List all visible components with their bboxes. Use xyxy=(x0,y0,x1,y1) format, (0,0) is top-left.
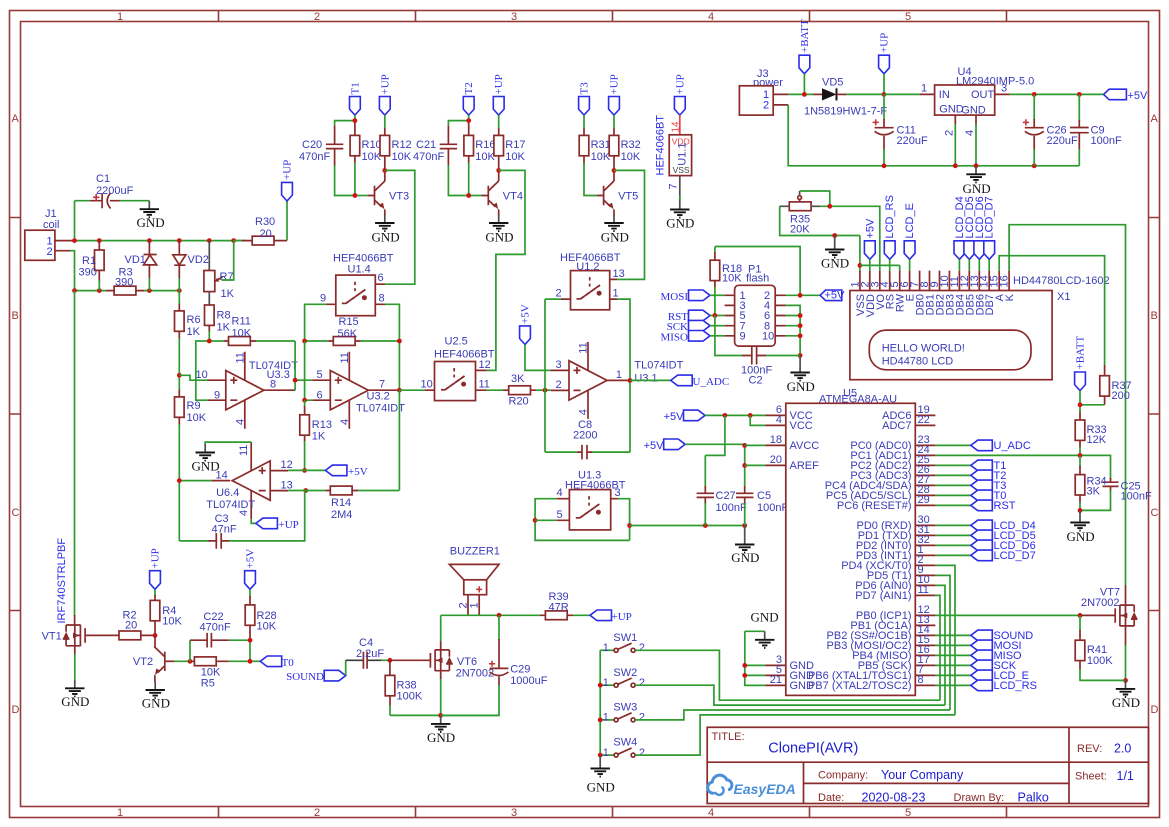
svg-text:1: 1 xyxy=(603,747,609,759)
wire R35 wiper to VO xyxy=(800,191,880,271)
svg-text:ADC7: ADC7 xyxy=(882,420,911,432)
capacitor C11 220uF xyxy=(873,94,928,168)
svg-text:5: 5 xyxy=(905,11,911,23)
svg-text:+5V: +5V xyxy=(245,549,257,569)
net port MOSI at PB3 xyxy=(935,640,1021,652)
svg-text:VT4: VT4 xyxy=(503,191,523,203)
resistor R28 10K xyxy=(245,596,277,640)
transistor VT2 xyxy=(133,635,175,675)
trimmer R35 20K xyxy=(780,191,820,236)
svg-text:20: 20 xyxy=(770,454,782,466)
net port T1 at PC2 xyxy=(935,460,1006,472)
capacitor C26 220uF xyxy=(1023,94,1078,165)
wire VT6 source to ground xyxy=(440,671,442,716)
svg-text:D: D xyxy=(1151,704,1159,716)
svg-text:100nF: 100nF xyxy=(716,502,747,514)
wire bus1 xyxy=(75,240,247,242)
svg-text:10K: 10K xyxy=(591,151,611,163)
op-amp U3.3 TL074IDT xyxy=(196,352,299,429)
node U3.2 inverting input xyxy=(302,341,312,403)
wire SW4 to PD4 xyxy=(635,715,955,755)
svg-text:GND: GND xyxy=(61,694,89,709)
resistor R39 47R xyxy=(540,591,590,620)
svg-text:2: 2 xyxy=(47,246,53,258)
svg-text:20K: 20K xyxy=(790,224,810,236)
svg-text:U1.4: U1.4 xyxy=(348,263,371,275)
resistor R31 10K xyxy=(579,128,611,196)
svg-text:VT6: VT6 xyxy=(457,656,477,668)
wire VT5 collector to U1.2 pin13 xyxy=(614,170,645,279)
svg-text:14: 14 xyxy=(670,121,681,133)
resistor R37 200 xyxy=(1080,365,1132,405)
wire U4 gnd pins xyxy=(955,124,976,166)
svg-text:LCD_E: LCD_E xyxy=(904,203,916,238)
svg-text:2200: 2200 xyxy=(573,430,597,442)
svg-text:C1: C1 xyxy=(96,173,110,185)
wire PD7 to SW1 riser xyxy=(935,595,940,700)
svg-text:PB7 (XTAL2/TOSC2): PB7 (XTAL2/TOSC2) xyxy=(808,680,912,692)
svg-text:GND: GND xyxy=(961,105,986,117)
capacitor C25 100nF xyxy=(1080,478,1152,510)
wire VT7 source to ground xyxy=(1123,626,1128,683)
wire LCD K to VT7 drain xyxy=(1009,225,1125,586)
net flag +UP over U1.1 xyxy=(674,74,686,115)
svg-text:REV:: REV: xyxy=(1077,743,1102,755)
net port SOUND at PB2 xyxy=(935,630,1033,642)
wire R7 wiper to bus1 xyxy=(222,241,234,280)
svg-text:1K: 1K xyxy=(217,322,231,334)
node VT1 gate xyxy=(153,633,158,638)
svg-text:20: 20 xyxy=(260,228,272,240)
wire C1 branch xyxy=(75,201,150,241)
analog switch U1.2 HEF4066BT xyxy=(556,252,625,310)
svg-text:10K: 10K xyxy=(392,151,412,163)
svg-text:3: 3 xyxy=(511,11,517,23)
svg-text:+5V: +5V xyxy=(664,411,685,423)
svg-text:GND: GND xyxy=(372,230,400,245)
svg-text:20: 20 xyxy=(125,620,137,632)
capacitor C29 1000uF xyxy=(441,615,548,715)
capacitor C5 100nF xyxy=(736,465,788,525)
ground VT7 xyxy=(1112,680,1140,710)
svg-text:+BATT: +BATT xyxy=(799,19,811,53)
net flag +UP over R12 xyxy=(379,74,391,128)
net port LCD_RS at PB7 xyxy=(935,680,1037,692)
net flag +UP over R17 xyxy=(493,74,505,128)
junction dots VT4 stage xyxy=(466,118,501,198)
svg-text:10K: 10K xyxy=(362,151,382,163)
ground VT4 xyxy=(485,210,513,245)
wire SW3 to PD5 xyxy=(635,710,950,720)
wire U6.4 pin12 to +5V node xyxy=(288,469,304,471)
svg-text:5: 5 xyxy=(905,807,911,819)
svg-text:2: 2 xyxy=(314,11,320,23)
svg-text:47R: 47R xyxy=(549,602,569,614)
net flag T1 xyxy=(349,82,361,120)
svg-text:SOUND: SOUND xyxy=(286,671,324,683)
svg-text:2: 2 xyxy=(639,712,645,724)
wire PD4 to SW4 riser xyxy=(935,565,955,715)
resistor R1 390 xyxy=(79,241,105,291)
wire LCD A to R37 xyxy=(999,256,1104,366)
svg-text:SW2: SW2 xyxy=(613,667,637,679)
svg-text:9: 9 xyxy=(214,390,220,402)
svg-text:GND: GND xyxy=(485,230,513,245)
svg-text:9: 9 xyxy=(740,331,746,343)
wire U4 pin1 xyxy=(884,93,920,95)
net port LCD_D6 at PD2 xyxy=(935,540,1035,552)
svg-text:220uF: 220uF xyxy=(897,135,928,147)
MCU U5 ATMEGA8A-AU xyxy=(766,388,936,696)
svg-text:2: 2 xyxy=(314,807,320,819)
svg-text:2: 2 xyxy=(458,602,470,608)
svg-text:IN: IN xyxy=(939,89,950,101)
svg-text:TL074IDT: TL074IDT xyxy=(206,499,255,511)
svg-text:C2: C2 xyxy=(749,375,763,387)
svg-text:GND: GND xyxy=(587,780,615,795)
wire U6.4 pin13 to R14 xyxy=(288,490,306,492)
svg-text:C: C xyxy=(12,507,20,519)
svg-text:VSS: VSS xyxy=(673,165,690,175)
diode VD1 xyxy=(125,241,157,291)
svg-text:2: 2 xyxy=(639,677,645,689)
svg-text:VCC: VCC xyxy=(790,420,813,432)
svg-text:3: 3 xyxy=(556,359,562,371)
svg-text:U1.1: U1.1 xyxy=(677,143,689,166)
net flag RST xyxy=(668,310,725,323)
net flag +UP over R4 xyxy=(150,548,162,596)
wire R35 left to ground row xyxy=(780,206,900,270)
net port T3 at PC4 xyxy=(935,480,1006,492)
svg-text:2: 2 xyxy=(944,130,956,136)
net flag SCK xyxy=(667,320,725,333)
svg-text:10: 10 xyxy=(196,369,208,381)
svg-text:U2.5: U2.5 xyxy=(445,336,468,348)
net flag T0 xyxy=(260,656,294,669)
svg-text:AREF: AREF xyxy=(790,460,820,472)
svg-text:3: 3 xyxy=(1001,83,1007,95)
svg-text:GND: GND xyxy=(751,610,779,625)
svg-text:3K: 3K xyxy=(1087,486,1101,498)
svg-text:OUT: OUT xyxy=(971,89,995,101)
svg-text:R20: R20 xyxy=(509,396,529,408)
svg-text:10K: 10K xyxy=(162,616,182,628)
net port LCD_D7 at PD3 xyxy=(935,550,1035,562)
svg-text:PC6 (RESET#): PC6 (RESET#) xyxy=(837,500,912,512)
wire PD6 to SW2 riser xyxy=(935,585,945,705)
svg-text:100K: 100K xyxy=(397,691,423,703)
net port LCD_D4 at PD0 xyxy=(935,520,1035,532)
capacitor C9 100nF xyxy=(1070,94,1122,165)
wire R18 top to +5V rail xyxy=(715,247,800,296)
svg-text:R5: R5 xyxy=(201,678,215,690)
net flag +BATT at J3 xyxy=(799,19,811,97)
svg-text:R30: R30 xyxy=(255,216,275,228)
wire PB0 to VT7 gate xyxy=(935,614,1080,616)
net port +5V at P1 pin2 xyxy=(786,290,846,302)
svg-text:U3.3: U3.3 xyxy=(267,369,290,381)
resistor R2 20 xyxy=(108,610,155,640)
net flag T3 xyxy=(579,82,591,128)
svg-text:GND: GND xyxy=(137,215,165,230)
junction bus1 dots xyxy=(72,238,236,243)
svg-text:R14: R14 xyxy=(331,497,351,509)
resistor R9 10K xyxy=(175,375,207,480)
svg-text:T2: T2 xyxy=(463,82,475,94)
svg-text:GND: GND xyxy=(427,730,455,745)
resistor R41 100K xyxy=(1075,615,1125,680)
op-amp U6.4 TL074IDT (mirrored) xyxy=(206,442,292,519)
svg-text:2: 2 xyxy=(556,288,562,300)
resistor R6 1K xyxy=(175,291,201,376)
wire U1.2 pin13 xyxy=(617,278,630,280)
svg-text:+UP: +UP xyxy=(609,74,621,94)
svg-text:29: 29 xyxy=(918,494,930,506)
wire U6.4 output to left rail xyxy=(177,478,211,541)
transistor VT4 xyxy=(469,170,523,210)
ground U5 left xyxy=(742,610,778,686)
net port T0 at PC5 xyxy=(935,490,1006,502)
op-amp U3.2 TL074IDT xyxy=(312,352,405,429)
svg-text:R6: R6 xyxy=(187,314,201,326)
power part U1.1 HEF4066BT xyxy=(655,115,692,201)
wire U1.2 pin1 to output rail xyxy=(617,299,630,452)
svg-text:R32: R32 xyxy=(621,139,641,151)
resistor R11 10K xyxy=(209,316,295,346)
svg-text:22: 22 xyxy=(918,414,930,426)
resistor R5 10K xyxy=(192,657,260,690)
svg-text:11: 11 xyxy=(578,342,590,353)
svg-text:GND: GND xyxy=(787,379,815,394)
svg-text:11: 11 xyxy=(234,352,246,363)
svg-text:1: 1 xyxy=(117,807,123,819)
net port LCD_E at LCD E xyxy=(904,203,916,271)
svg-text:11: 11 xyxy=(479,379,490,391)
analog switch U1.4 HEF4066BT xyxy=(320,253,394,316)
svg-text:4: 4 xyxy=(557,487,563,499)
net flag +UP at VD5 xyxy=(879,33,891,97)
resistor R16 10K xyxy=(464,121,496,196)
wire U3.2 output node xyxy=(397,388,425,491)
capacitor C22 470nF xyxy=(190,611,250,661)
svg-text:VD2: VD2 xyxy=(188,254,209,266)
resistor R4 10K xyxy=(150,595,182,635)
analog switch U2.5 HEF4066BT xyxy=(421,336,495,401)
net flag U_ADC xyxy=(628,375,730,388)
svg-text:5: 5 xyxy=(317,369,323,381)
svg-text:2: 2 xyxy=(639,747,645,759)
capacitor C27 100nF xyxy=(697,455,747,525)
wire buzzer row xyxy=(441,613,540,618)
svg-text:TITLE:: TITLE: xyxy=(712,731,745,743)
svg-text:ClonePI(AVR): ClonePI(AVR) xyxy=(768,741,858,757)
net port +5V to VCC xyxy=(664,410,766,455)
svg-text:Drawn By:: Drawn By: xyxy=(954,792,1005,804)
svg-text:1: 1 xyxy=(117,11,123,23)
svg-text:B: B xyxy=(12,310,19,322)
wire bottom ground row VT6 xyxy=(390,713,499,718)
svg-text:R11: R11 xyxy=(232,316,251,328)
switch SW2 xyxy=(600,667,645,689)
svg-text:U_ADC: U_ADC xyxy=(994,440,1031,452)
svg-text:10: 10 xyxy=(421,379,433,391)
svg-text:+UP: +UP xyxy=(493,74,505,94)
switch SW1 xyxy=(600,632,645,654)
svg-text:GND: GND xyxy=(939,104,964,116)
svg-text:MOSI: MOSI xyxy=(660,291,688,303)
svg-text:6: 6 xyxy=(378,272,384,284)
svg-text:13: 13 xyxy=(613,268,625,280)
svg-text:R31: R31 xyxy=(591,139,611,151)
svg-text:1K: 1K xyxy=(187,326,201,338)
svg-text:VT1: VT1 xyxy=(42,630,62,642)
capacitor C3 47nF xyxy=(179,491,304,549)
resistor R32 10K xyxy=(609,128,641,170)
svg-text:GND: GND xyxy=(731,550,759,565)
svg-text:GND: GND xyxy=(1112,695,1140,710)
connector J1 coil xyxy=(25,208,75,260)
wire SW2 to PD6 xyxy=(635,685,945,705)
svg-text:+BATT: +BATT xyxy=(1075,336,1087,370)
title block xyxy=(707,727,1148,804)
svg-text:U_ADC: U_ADC xyxy=(693,376,730,388)
svg-text:390: 390 xyxy=(115,277,133,289)
net port LCD_E at PB6 xyxy=(935,670,1029,682)
svg-text:11: 11 xyxy=(918,584,929,596)
op-amp U3.1 TL074IDT xyxy=(551,342,684,419)
wire U3.3 feedback loop xyxy=(196,341,210,400)
wire U1.4 pin9 to R15 left xyxy=(305,304,327,341)
svg-text:GND: GND xyxy=(142,696,170,711)
svg-text:4: 4 xyxy=(708,807,714,819)
svg-text:10K: 10K xyxy=(257,621,277,633)
ground VT6 xyxy=(427,715,455,745)
svg-text:11: 11 xyxy=(238,445,250,456)
svg-text:56K: 56K xyxy=(338,328,358,340)
svg-text:12: 12 xyxy=(479,359,491,371)
svg-text:Your Company: Your Company xyxy=(881,768,964,782)
ground under C5 xyxy=(731,526,759,566)
net flag +UP over R32 xyxy=(609,74,621,128)
svg-text:PD7 (AIN1): PD7 (AIN1) xyxy=(855,590,911,602)
svg-text:coil: coil xyxy=(43,219,60,231)
svg-text:R9: R9 xyxy=(187,400,201,412)
wire J1 pin2 rail down to VT1 drain xyxy=(74,291,76,616)
svg-text:R12: R12 xyxy=(392,139,412,151)
svg-text:HEF4066BT: HEF4066BT xyxy=(655,115,667,176)
svg-text:10K: 10K xyxy=(621,151,641,163)
ground at P1 xyxy=(787,356,815,395)
svg-text:LCD_RS: LCD_RS xyxy=(884,195,896,238)
svg-text:U3.1: U3.1 xyxy=(634,373,657,385)
svg-text:1: 1 xyxy=(603,712,609,724)
svg-text:2: 2 xyxy=(556,379,562,391)
ground U1.1 xyxy=(666,201,694,231)
svg-text:7: 7 xyxy=(668,183,680,189)
svg-text:+5V: +5V xyxy=(1128,90,1149,102)
svg-text:+UP: +UP xyxy=(612,611,632,623)
junction bus2 dots xyxy=(72,288,182,293)
net flag MISO xyxy=(660,331,724,344)
wire U6.4 pin11 to ground xyxy=(205,442,251,444)
svg-text:+5V: +5V xyxy=(825,290,846,302)
svg-text:flash: flash xyxy=(746,273,769,285)
ground U6.4 xyxy=(192,444,220,474)
analog switch U1.3 HEF4066BT xyxy=(556,470,626,530)
capacitor C2 100nF xyxy=(741,347,800,387)
svg-text:2N7002: 2N7002 xyxy=(456,668,495,680)
resistor R13 1K xyxy=(300,400,332,470)
capacitor C20 470nF xyxy=(299,121,355,196)
ground at R35 xyxy=(821,236,849,271)
node T0 junctions xyxy=(248,638,253,664)
svg-text:+5V: +5V xyxy=(644,440,665,452)
net flag +5V at R13 xyxy=(302,465,368,478)
svg-text:+UP: +UP xyxy=(150,548,162,568)
svg-text:TL074IDT: TL074IDT xyxy=(634,360,683,372)
resistor R33 12K xyxy=(1075,412,1107,456)
svg-text:3K: 3K xyxy=(511,373,525,385)
svg-text:4: 4 xyxy=(234,419,246,425)
svg-text:Sheet:: Sheet: xyxy=(1075,771,1107,783)
net port +5V at U4 out xyxy=(1104,89,1148,102)
svg-text:7: 7 xyxy=(379,379,385,391)
svg-text:10: 10 xyxy=(762,331,774,343)
net port LCD_D5 xyxy=(964,196,976,270)
LCD X1 HD44780LCD-1602 xyxy=(849,271,1109,380)
node U3.3 plus input xyxy=(177,373,208,380)
svg-text:R10: R10 xyxy=(362,139,382,151)
svg-text:+5V: +5V xyxy=(348,466,368,478)
resistor R3 390 xyxy=(106,267,144,296)
wire J1 pin2 down to bus2 xyxy=(70,251,75,291)
svg-text:470nF: 470nF xyxy=(299,151,330,163)
svg-text:LCD_RS: LCD_RS xyxy=(994,680,1037,692)
svg-text:C5: C5 xyxy=(757,490,771,502)
svg-text:R1: R1 xyxy=(82,255,96,267)
svg-text:9: 9 xyxy=(320,293,326,305)
svg-text:100nF: 100nF xyxy=(1091,135,1122,147)
net port U_ADC at PC0 xyxy=(935,440,1030,452)
EasyEDA logo xyxy=(708,775,796,797)
svg-text:200: 200 xyxy=(1112,390,1130,402)
net flag +UP at R39 xyxy=(590,610,632,623)
svg-text:2020-08-23: 2020-08-23 xyxy=(862,791,926,805)
resistor R10 10K xyxy=(350,121,382,196)
svg-text:GND: GND xyxy=(601,230,629,245)
wire bus2 xyxy=(75,290,180,292)
svg-text:1000uF: 1000uF xyxy=(510,675,548,687)
svg-text:SW3: SW3 xyxy=(613,702,637,714)
svg-text:D: D xyxy=(12,704,20,716)
wire U3.3 output rail xyxy=(207,339,312,391)
svg-text:1: 1 xyxy=(613,288,619,300)
transistor VT5 xyxy=(597,170,638,210)
junction dots on ground rail xyxy=(953,163,1037,168)
svg-text:4: 4 xyxy=(708,11,714,23)
svg-text:R8: R8 xyxy=(217,310,231,322)
node VT2 base xyxy=(174,659,192,664)
svg-text:EasyEDA: EasyEDA xyxy=(734,781,796,797)
wire VT6 drain up xyxy=(440,615,442,650)
wire PC1 battery sense xyxy=(935,453,1110,479)
svg-text:A: A xyxy=(12,113,20,125)
svg-text:390: 390 xyxy=(79,267,97,279)
svg-text:4: 4 xyxy=(776,414,782,426)
svg-text:C21: C21 xyxy=(416,139,436,151)
resistor R30 20 xyxy=(234,216,287,245)
transistor VT6 2N7002 xyxy=(430,650,494,680)
